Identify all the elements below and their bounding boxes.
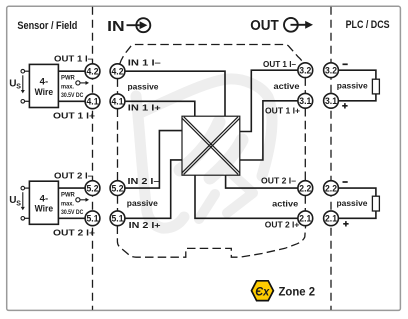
Ex hexagon Zone 2 (252, 281, 316, 301)
header OUT with arrow icon (250, 18, 313, 34)
terminal 3.1 inner (298, 93, 313, 108)
svg-text:passive: passive (127, 198, 158, 208)
wire OUT 1 I+ from isolator to terminal 3.1 (240, 101, 298, 160)
svg-text:passive: passive (128, 82, 159, 92)
zone separator right (330, 7, 332, 310)
wire OUT 1 I- from isolator to terminal 3.2 (240, 70, 298, 131)
wire box1 to terminal 4.1 (58, 100, 85, 102)
terminal 4.1 outer (85, 94, 100, 109)
svg-text:S: S (16, 201, 21, 208)
label minus ch1 right (343, 63, 348, 65)
supply terminal dot ch2 bottom (21, 217, 25, 221)
svg-text:Sensor / Field: Sensor / Field (17, 20, 77, 32)
load resistor ch1 (372, 79, 379, 94)
svg-text:OUT 2 I+: OUT 2 I+ (53, 227, 95, 237)
watermark (136, 79, 272, 228)
wire IN 2 I- from terminal 5.2 to isolator (125, 131, 182, 189)
terminal 2.2 outer (324, 181, 339, 196)
svg-text:5.2: 5.2 (87, 184, 99, 194)
terminal 4.2 inner (110, 64, 125, 79)
terminal 3.2 outer (324, 63, 339, 78)
terminal 3.1 outer (324, 93, 339, 108)
svg-text:4.2: 4.2 (112, 67, 124, 77)
svg-text:passive: passive (337, 198, 368, 208)
svg-text:PWR: PWR (61, 192, 75, 199)
PWR rating text ch2 (61, 192, 89, 216)
supply terminal dot ch1 top (21, 69, 25, 73)
header IN with arrow icon (107, 18, 150, 35)
svg-text:3.1: 3.1 (325, 96, 337, 106)
svg-text:active: active (274, 81, 300, 91)
isolator X band diagonal TR-BL (182, 117, 240, 175)
wire supply stub top ch2 (25, 187, 30, 189)
wire IN 2 I+ from terminal 5.1 to isolator (125, 160, 182, 218)
svg-text:Zone 2: Zone 2 (279, 285, 316, 299)
device dashed outline right verticals (304, 77, 306, 211)
wire OUT 2 I- from isolator to terminal 2.2 (226, 175, 299, 188)
terminal 4.1 inner (110, 94, 125, 109)
svg-text:2.1: 2.1 (325, 214, 337, 224)
svg-text:5.2: 5.2 (112, 184, 124, 194)
wire supply stub bottom ch1 (25, 100, 30, 102)
isolator X band diagonal TL-BR (182, 117, 240, 175)
svg-text:OUT: OUT (250, 18, 279, 34)
svg-text:Wire: Wire (35, 204, 54, 215)
supply terminal dot ch2 top (21, 186, 25, 190)
svg-text:4.1: 4.1 (112, 97, 124, 107)
svg-text:Wire: Wire (35, 87, 54, 98)
terminal 2.2 inner (298, 181, 313, 196)
terminal 5.1 outer (85, 211, 100, 226)
wire supply stub top ch1 (25, 70, 30, 72)
device dashed outline bottom (117, 226, 305, 258)
terminal 5.2 outer (85, 181, 100, 196)
svg-text:S: S (16, 84, 21, 91)
svg-text:passive: passive (337, 81, 368, 91)
wire box2 to terminal 5.2 (58, 187, 85, 189)
PWR rating text ch1 (61, 75, 89, 99)
svg-text:OUT 2 I+: OUT 2 I+ (265, 220, 300, 230)
svg-text:5.1: 5.1 (87, 214, 99, 224)
load resistor ch2 (372, 196, 379, 211)
label plus ch2 right (343, 221, 348, 226)
svg-text:OUT 1 I+: OUT 1 I+ (53, 110, 95, 120)
svg-text:max.: max. (61, 201, 74, 208)
svg-text:IN 2 I+: IN 2 I+ (129, 220, 161, 230)
svg-text:2.2: 2.2 (325, 184, 337, 194)
wire box2 to terminal 5.1 (58, 217, 85, 219)
terminal 5.2 inner (110, 181, 125, 196)
wire IN 1 I- from terminal 4.2 to isolator (125, 71, 225, 116)
Us label ch2 (9, 192, 24, 210)
terminal 4.2 outer (85, 64, 100, 79)
svg-text:PLC / DCS: PLC / DCS (346, 19, 390, 31)
terminal 5.1 inner (110, 211, 125, 226)
svg-text:2.1: 2.1 (299, 214, 311, 224)
terminal 3.2 inner (298, 63, 313, 78)
svg-text:active: active (272, 199, 298, 209)
4-wire transmitter box ch2 (29, 181, 58, 224)
svg-text:OUT 1 I–: OUT 1 I– (263, 59, 296, 69)
wire load loop ch2 (338, 188, 376, 218)
Us label ch1 (9, 75, 24, 93)
svg-text:OUT 2 I–: OUT 2 I– (54, 171, 93, 181)
wire IN 1 I+ from terminal 4.1 to isolator (125, 101, 195, 116)
svg-text:2.2: 2.2 (299, 184, 311, 194)
device dashed outline left verticals (117, 78, 119, 211)
svg-text:Єx: Єx (255, 285, 270, 299)
wire supply stub bottom ch2 (25, 217, 30, 219)
svg-text:3.1: 3.1 (299, 96, 311, 106)
svg-text:3.2: 3.2 (325, 66, 337, 76)
svg-text:30.5V DC: 30.5V DC (61, 92, 84, 99)
svg-text:OUT 1 I–: OUT 1 I– (54, 54, 93, 64)
svg-text:IN 1 I+: IN 1 I+ (128, 102, 161, 112)
svg-text:4.1: 4.1 (87, 97, 99, 107)
svg-text:5.1: 5.1 (112, 214, 124, 224)
svg-text:OUT 2 I–: OUT 2 I– (261, 176, 296, 186)
svg-text:max.: max. (61, 84, 74, 91)
label minus ch2 right (343, 181, 348, 183)
terminal 2.1 inner (298, 211, 313, 226)
terminal 2.1 outer (324, 211, 339, 226)
svg-text:IN 1 I–: IN 1 I– (128, 58, 161, 68)
svg-text:4.2: 4.2 (87, 67, 99, 77)
device dashed outline top (120, 45, 303, 64)
svg-text:3.2: 3.2 (299, 66, 311, 76)
wire box1 to terminal 4.2 (58, 70, 85, 72)
svg-text:OUT 1 I+: OUT 1 I+ (265, 105, 300, 115)
svg-text:IN: IN (107, 18, 125, 35)
svg-text:IN 2 I–: IN 2 I– (128, 176, 160, 186)
label plus ch1 right (342, 103, 347, 108)
isolator U1 square (182, 116, 240, 175)
wire OUT 2 I+ from isolator to terminal 2.1 (195, 175, 298, 218)
svg-text:PWR: PWR (61, 75, 75, 82)
4-wire transmitter box ch1 (29, 64, 58, 107)
wire load loop ch1 (338, 70, 376, 101)
supply terminal dot ch1 bottom (21, 100, 25, 104)
zone separator left (92, 7, 94, 310)
svg-text:30.5V DC: 30.5V DC (61, 209, 84, 216)
